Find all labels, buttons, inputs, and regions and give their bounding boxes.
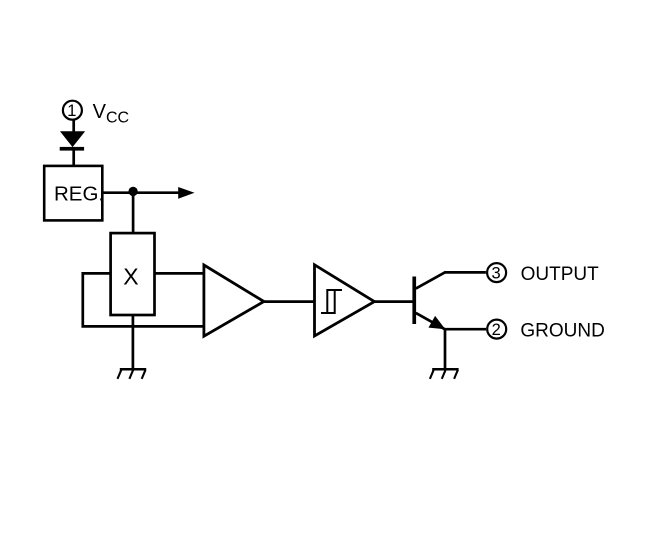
wire hall left output loop <box>83 273 204 326</box>
transistor Q1 collector <box>416 272 446 289</box>
svg-text:X: X <box>123 264 138 290</box>
svg-text:REG.: REG. <box>54 182 104 205</box>
pin circle 1 <box>63 101 82 120</box>
hysteresis symbol <box>321 290 342 313</box>
internal supply arrow <box>178 187 194 199</box>
op-amp A1 <box>204 265 264 336</box>
wire regulator output <box>102 191 180 194</box>
wire hall element to ground <box>132 315 135 369</box>
svg-text:2: 2 <box>492 321 501 339</box>
wire diode to regulator <box>72 150 75 166</box>
svg-text:CC: CC <box>106 110 129 127</box>
pin circle 2 <box>487 320 506 339</box>
transistor Q1 emitter with arrow <box>416 313 446 330</box>
transistor Q1 base bar <box>412 277 416 325</box>
ground symbol (hall element) <box>118 369 147 379</box>
wire pin1 to diode <box>72 120 75 133</box>
ground symbol (emitter) <box>430 369 459 379</box>
wire junction to hall element <box>132 193 135 233</box>
wire collector to pin 3 <box>445 271 486 274</box>
junction dot <box>128 187 137 196</box>
diode D1 (reverse polarity protection) <box>60 132 84 151</box>
wire emitter to pin 2 <box>445 328 486 331</box>
svg-text:3: 3 <box>492 264 501 282</box>
pin circle 3 <box>487 263 506 282</box>
hall element X <box>111 233 155 315</box>
svg-text:GROUND: GROUND <box>520 320 604 341</box>
svg-text:V: V <box>93 101 107 123</box>
wire amplifier to schmitt trigger <box>264 300 315 303</box>
schmitt trigger U1 <box>315 265 375 336</box>
svg-text:1: 1 <box>67 102 76 120</box>
label VCC <box>93 101 130 127</box>
wire schmitt to transistor base <box>374 300 412 303</box>
wire emitter to ground <box>444 329 447 369</box>
wire hall right output to amplifier <box>155 272 204 275</box>
svg-text:OUTPUT: OUTPUT <box>521 264 600 285</box>
regulator block REG. <box>44 166 104 221</box>
